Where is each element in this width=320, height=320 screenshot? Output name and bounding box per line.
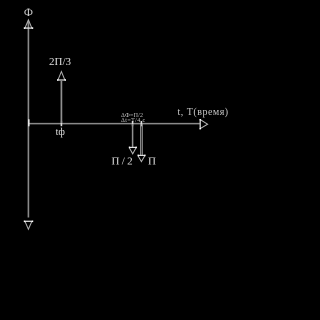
svg-text:П: П: [148, 156, 156, 168]
wire vertical axis stem: [27, 21, 29, 218]
down arrow 1 (П/2): [132, 121, 134, 126]
svg-text:tф: tф: [56, 127, 66, 138]
wire horizontal time axis: [28, 123, 199, 125]
down arrow 2 (П), double stem: [140, 121, 142, 126]
node origin tick 0: [28, 119, 30, 126]
horizontal axis right arrowhead: [200, 120, 207, 129]
svg-text:Ф: Ф: [24, 7, 33, 19]
svg-text:t, Т(время): t, Т(время): [178, 107, 229, 118]
svg-text:П/2: П/2: [112, 156, 135, 168]
vertical axis bottom arrowhead: [25, 222, 32, 230]
svg-text:2П/3: 2П/3: [49, 56, 72, 68]
vertical axis top arrowhead: [25, 20, 32, 28]
up arrow marker at t1: [60, 121, 62, 126]
